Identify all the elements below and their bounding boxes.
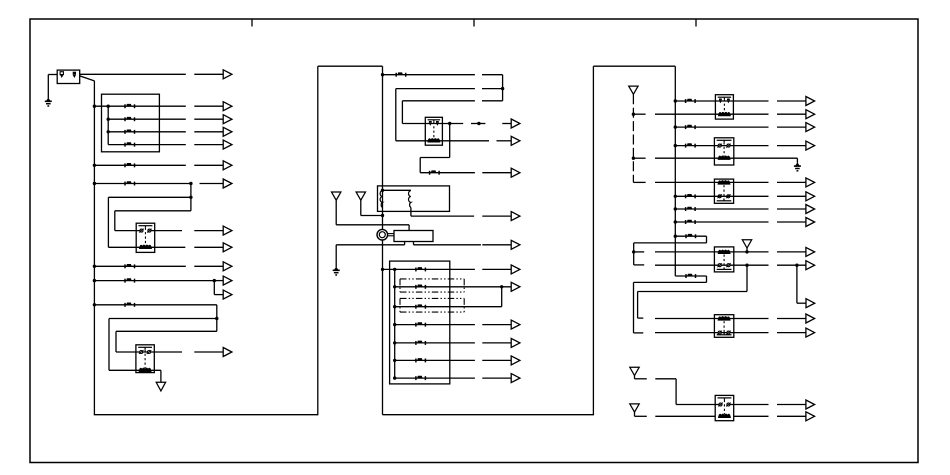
arrow out line D [482, 172, 511, 174]
wire AN5 line [655, 378, 676, 380]
arrow out group 1 [482, 268, 511, 270]
inductor L19 [686, 99, 696, 103]
border tick 3 [695, 19, 697, 27]
wire right line 1 [675, 100, 768, 102]
arrow out U1 [482, 244, 511, 246]
node stub [477, 122, 480, 125]
arrow out filter 1 [194, 105, 223, 107]
wire line 6 [94, 183, 190, 185]
node bus lineA [381, 73, 384, 76]
wire K1 coil line [108, 246, 185, 248]
wire AN1 line to U1 [336, 224, 409, 226]
node line8 split [213, 279, 216, 282]
inductor L9 [125, 303, 135, 307]
relay K5 [714, 138, 733, 165]
node K3 output junction [448, 122, 451, 125]
shield box B3 [390, 261, 450, 384]
wire K5 coil ground drop [796, 158, 798, 163]
arrow out group 7 [482, 377, 511, 379]
wire AN3 stem dashed [632, 94, 634, 182]
node bus r4 [674, 144, 677, 147]
wire right line 7 [675, 208, 768, 210]
arrow out K1 coil [194, 246, 223, 248]
inductor L26 [686, 274, 696, 278]
wire r9 drop [706, 236, 708, 243]
ground G3 [794, 162, 801, 171]
arrow out line 6 [200, 183, 224, 185]
node feeder 7 [393, 376, 396, 379]
arrow out line r3 [777, 126, 806, 128]
wire AN5 stub [635, 378, 647, 380]
inductor L4 [125, 142, 135, 146]
node bus r7 [674, 207, 677, 210]
pin 1 of J1 (open) [60, 72, 63, 75]
inductor L17 [416, 358, 426, 362]
wire line 5 [94, 164, 185, 166]
arrow out K6 contact [777, 195, 806, 197]
arrow out K7 coil [777, 251, 806, 253]
wire feeder vertical B3 [394, 269, 396, 378]
wire mid lineA jumper [482, 74, 503, 76]
transformer T1 box [378, 186, 450, 212]
dashed shield box D1 [400, 278, 464, 280]
wire T1 secondary tap down [410, 208, 412, 217]
node feeder 1 [393, 268, 396, 271]
connector J1 [57, 70, 79, 83]
node bus r1 [674, 99, 677, 102]
wire filter line 3 [108, 131, 186, 133]
arrow out K8 contact [777, 332, 806, 334]
inductor L14 [416, 304, 426, 308]
wire line 9 [94, 304, 216, 306]
wire K8 coil stub [638, 317, 644, 319]
wire bus bottom middle [383, 414, 594, 416]
wire branch vertical at 190.9 [190, 184, 192, 211]
relay K8 (flipped) [714, 315, 733, 338]
wire U1 top tap [408, 225, 410, 231]
node bus r6 [674, 195, 677, 198]
wire K7 coil line [655, 251, 769, 253]
arrow out line 8a [214, 280, 223, 282]
arrow out K4 contact [777, 100, 806, 102]
wire snake upper horizontal [108, 196, 190, 198]
wire branch down to extra arrow [796, 265, 798, 303]
wire r9 return [634, 242, 707, 244]
inductor L8 [125, 278, 135, 282]
shield box around filter group [102, 94, 160, 152]
node bus line5 [93, 164, 96, 167]
antenna AN5 [630, 367, 639, 375]
inductor L25 [686, 234, 696, 238]
inductor L5 [125, 163, 135, 167]
node bus line7 [93, 265, 96, 268]
inductor L18 [416, 376, 426, 380]
node group junction 2 [107, 118, 110, 121]
wire K5 coil line [655, 157, 797, 159]
wire bus mid-left vertical [317, 66, 319, 415]
wire filter line 2 [108, 118, 186, 120]
wire right line 4 [675, 145, 768, 147]
wire K4 coil stub [633, 113, 645, 115]
wire bus bottom left [94, 414, 318, 416]
arrow out line r7 [777, 208, 806, 210]
wire K6 coil stub [633, 181, 645, 183]
node K5 coil junction [632, 157, 635, 160]
node feeder 3 [393, 305, 396, 308]
node snake2 junction [215, 317, 218, 320]
wire lineB drop to K3 coil [395, 89, 397, 141]
arrow out group 4 [482, 324, 511, 326]
wire J1 to ground [48, 74, 57, 76]
inductor L15 [416, 322, 426, 326]
terminal triangle K2 coil [156, 382, 165, 391]
wire bus top middle [318, 65, 383, 67]
arrow out K4 coil [777, 113, 806, 115]
wire K8 return horizontal [638, 291, 747, 293]
wire J1 to bus (diagonal) [80, 76, 95, 81]
wire AN2 to bus [361, 215, 383, 217]
arrow out extra [797, 302, 806, 304]
node snake junction [189, 196, 192, 199]
node mid drop junction [501, 87, 504, 90]
wire feeder vertical for group [107, 106, 109, 144]
relay K7 (flipped) [714, 247, 733, 272]
arrow out K2 contact [194, 351, 223, 353]
wire line 8 [94, 280, 214, 282]
wire K3 branch down [449, 124, 451, 158]
wire U1 bottom tap left [404, 242, 406, 245]
wire mid group line 2 [395, 286, 512, 288]
arrow out group 5 [482, 342, 511, 344]
relay K1 [136, 223, 155, 252]
wire bus top right [593, 65, 675, 67]
inductor L10 [396, 72, 406, 76]
wire U1 bottom tap right [413, 242, 415, 245]
inductor L3 [125, 130, 135, 134]
wire snake2 left vertical to K2 coil [108, 319, 110, 371]
wire K8 coil line [655, 318, 769, 320]
wire K1 contact input [115, 230, 140, 232]
node line2-line3 tie [500, 285, 503, 288]
wire AN1 stem [335, 200, 337, 225]
inductor L12 [416, 267, 426, 271]
wire K7 feeder vertical [633, 243, 635, 265]
motor M1 (double circle) [377, 229, 388, 240]
antenna AN2 [356, 192, 365, 200]
inductor L23 [686, 207, 696, 211]
wire line 7 [94, 265, 185, 267]
inductor L7 [125, 264, 135, 268]
wire snake2 upper horizontal [109, 318, 217, 320]
arrow out K8 coil [777, 318, 806, 320]
wire mid group line 7 [395, 377, 475, 379]
wire K7 contact stub [634, 264, 645, 266]
wire K6 coil line [655, 181, 769, 183]
antenna AN4 [742, 240, 751, 248]
node line6 branch [189, 182, 192, 185]
inductor L6 [125, 181, 135, 185]
wire K8 contact feeder vertical [633, 282, 635, 333]
relay K2 [136, 345, 154, 373]
relay K3 [425, 117, 442, 145]
wire K2 coil drop [160, 370, 162, 382]
node group junction 1 [107, 105, 110, 108]
wire snake lower horizontal [115, 210, 191, 212]
wire mid group line 3 [395, 306, 502, 308]
wire K4 coil line [655, 113, 769, 115]
arrow out K3 contact [502, 123, 511, 125]
wire bus end drop [706, 276, 708, 282]
wire right line 6 [675, 195, 768, 197]
node AN3 k4coil junction [632, 113, 635, 116]
wire K2 contact line [116, 351, 182, 353]
arrow out K3 coil [497, 140, 512, 142]
node arrow feed branch [795, 264, 798, 267]
wire K3 branch vertical 2 [419, 158, 421, 173]
node group junction 3 [107, 130, 110, 133]
arrow out K9 contact [777, 404, 806, 406]
wire ground line to U1 [336, 244, 404, 246]
arrow out K6 coil [777, 181, 806, 183]
wire snake2 inner vertical to K2 contact [115, 331, 117, 352]
inductor L16 [416, 341, 426, 345]
node feeder 5 [393, 341, 396, 344]
arrow out K7 contact [777, 264, 806, 266]
wire right line 3 [675, 126, 768, 128]
wire T1 top bar [383, 189, 411, 191]
arrow out line r8 [777, 221, 806, 223]
relay K6 (flipped) [714, 179, 733, 203]
arrow out group 6 [482, 359, 511, 361]
wire K9 contact input [676, 404, 720, 406]
wire K3 coil line [396, 140, 489, 142]
wire bus mid-right vertical [382, 66, 384, 415]
antenna AN1 [332, 192, 341, 200]
border tick 2 [473, 19, 475, 27]
inductor L11 [430, 170, 440, 174]
wire filter line 4 [108, 144, 186, 146]
wire bus right-left vertical [592, 66, 594, 415]
wire K5 coil stub [633, 157, 645, 159]
wire filter line 1 [94, 105, 185, 107]
arrow out group 2 [511, 282, 520, 291]
relay K4 [715, 95, 733, 119]
wire AN5 stem [634, 376, 636, 379]
wire K7 coil stub [634, 251, 645, 253]
ground G2 [333, 267, 340, 276]
wire K1 contact output [151, 230, 182, 232]
node bus line8 [93, 279, 96, 282]
mechanical link lines [388, 233, 394, 235]
wire AN5 drop [675, 379, 677, 405]
border tick 1 [251, 19, 253, 27]
wire snake2 right vertical [216, 305, 218, 332]
arrow out K5 contact [777, 145, 806, 147]
wire K9 coil input [655, 415, 715, 417]
node AN2 bus junction [381, 214, 384, 217]
pin 2 of J1 (filled) [73, 72, 76, 75]
wire T1 secondary output [411, 215, 474, 217]
arrow out K9 coil [777, 415, 806, 417]
wire AN6 stub [635, 415, 647, 417]
node K7 contact branch [745, 264, 748, 267]
node bus line9 [93, 303, 96, 306]
node bus line6 [93, 182, 96, 185]
relay K9 [715, 395, 734, 420]
wire U1 output [414, 244, 481, 246]
node bus r3 [674, 125, 677, 128]
node bus r9 [674, 235, 677, 238]
wire snake left vertical to K1 coil [107, 197, 109, 247]
inductor L13 [416, 285, 426, 289]
wire K3 branch horizontal [420, 157, 450, 159]
wire right line 8 [675, 221, 768, 223]
connector arrow out 1 [194, 73, 223, 75]
wire bus right vertical [674, 66, 676, 276]
inductor L24 [686, 220, 696, 224]
wire K9 contact output [729, 404, 769, 406]
wire K7 contact to K8 drop [746, 265, 748, 291]
inductor L20 [686, 125, 696, 129]
arrow out line 8b [214, 294, 223, 296]
wire mid right drop [502, 75, 504, 101]
wire AN6 stem [634, 412, 636, 416]
wire AN2 stem [360, 200, 362, 215]
wire mid group line 6 [395, 359, 475, 361]
transformer T1 primary coil [380, 191, 382, 208]
arrow out filter 4 [194, 144, 223, 146]
arrow out filter 2 [194, 118, 223, 120]
arrow out K1 contact [194, 230, 223, 232]
wire bus left vertical [93, 81, 95, 415]
wire mid line B [396, 88, 475, 90]
wire mid group line 5 [395, 342, 475, 344]
wire AN4 stem [746, 248, 748, 252]
wire K9 coil output [734, 415, 769, 417]
antenna AN3 [629, 86, 638, 94]
wire ground drop mid [335, 245, 337, 267]
wire mid line A [383, 74, 475, 76]
wire bus end line [675, 275, 706, 277]
arrow out filter 3 [194, 131, 223, 133]
node feeder 6 [393, 359, 396, 362]
wire K8 feeder vertical [637, 292, 639, 319]
wire K2 coil line [109, 369, 161, 371]
antenna AN6 [630, 404, 639, 412]
wire tie vertical [501, 287, 503, 307]
wire K3 contact input [402, 123, 463, 125]
inductor L2 [125, 117, 135, 121]
node AN4 junction [745, 250, 748, 253]
inductor L21 [686, 143, 696, 147]
dashed shield box D2 [400, 297, 464, 299]
wire K8 contact stub [634, 332, 644, 334]
transformer T1 secondary coil [409, 191, 411, 208]
wire snake2 lower horizontal [116, 330, 217, 332]
wire K7 contact line [655, 264, 769, 266]
wire J1 output [80, 73, 186, 75]
wire bus end return [634, 281, 707, 283]
inductor L22 [686, 194, 696, 198]
wire mid group line 4 [395, 324, 475, 326]
node bus B3 junction [381, 268, 384, 271]
node feeder 2 [393, 285, 396, 288]
node bus r8 [674, 220, 677, 223]
node feeder 4 [393, 323, 396, 326]
wire mid line C [402, 100, 475, 102]
wire mid lineB jumper [482, 88, 503, 90]
wire lineC drop to K3 contact [401, 101, 403, 124]
arrow out T1 secondary [482, 215, 511, 217]
wire snake inner vertical to K1 contact [114, 211, 116, 231]
arrow out line 7 [194, 265, 223, 267]
arrow out line 5 [194, 164, 223, 166]
ground G1 [45, 98, 52, 107]
node T1 top junction [381, 189, 384, 192]
wire K8 contact line [655, 332, 769, 334]
inductor L1 [125, 104, 135, 108]
wire mid lineC jumper [482, 100, 503, 102]
wire mid line D [420, 172, 475, 174]
tuner box U1 [394, 231, 433, 242]
wire stub with node [471, 123, 485, 125]
node bus-group junction [93, 105, 96, 108]
node K7 coil junction [632, 250, 635, 253]
wire right line 9 [675, 235, 706, 237]
wire line8 branch down [213, 281, 215, 295]
wire mid group line 1 [383, 268, 475, 270]
